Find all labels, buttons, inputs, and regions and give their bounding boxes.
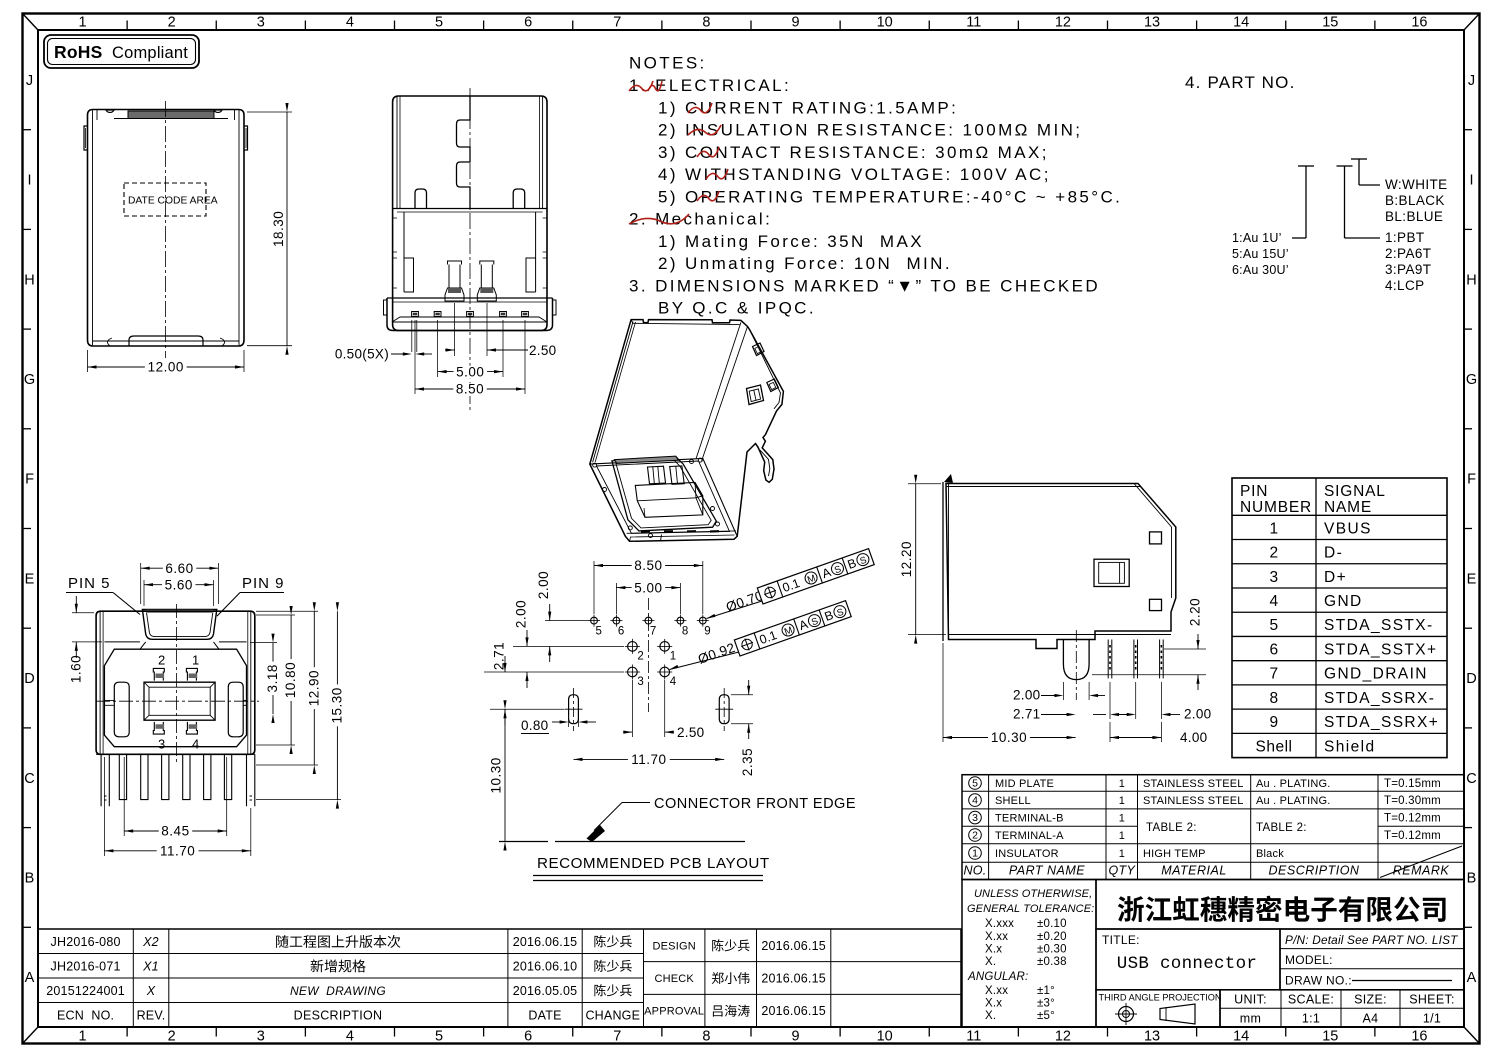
view: connector top view (12.00 x 18.30) (84, 101, 248, 358)
svg-text:G: G (24, 372, 35, 388)
svg-text:5:Au 15U’: 5:Au 15U’ (1232, 247, 1289, 261)
svg-text:X.x: X.x (985, 998, 1002, 1010)
ruler column ticks and numbers (126, 21, 128, 30)
RoHS Compliant badge (44, 35, 199, 68)
svg-text:2.50: 2.50 (529, 343, 556, 358)
svg-text:4: 4 (972, 795, 978, 807)
svg-text:TITLE:: TITLE: (1102, 933, 1140, 947)
svg-text:3:PA9T: 3:PA9T (1385, 262, 1431, 277)
dim 1.60 (72, 612, 94, 614)
svg-text:2.00: 2.00 (1013, 688, 1040, 703)
svg-text:1) Mating Force: 35N MAX: 1) Mating Force: 35N MAX (658, 232, 924, 251)
svg-text:SIZE:: SIZE: (1354, 993, 1387, 1007)
view: isometric 3d connector (590, 320, 784, 542)
svg-text:1/1: 1/1 (1423, 1012, 1441, 1026)
svg-text:2.20: 2.20 (1188, 598, 1203, 626)
view: recommended pcb layout (484, 558, 755, 850)
svg-text:HIGH TEMP: HIGH TEMP (1143, 848, 1206, 860)
part-no tree line 2 (material) (1344, 166, 1346, 238)
svg-text:D: D (24, 671, 34, 687)
svg-text:mm: mm (1240, 1012, 1261, 1026)
svg-text:T=0.30mm: T=0.30mm (1384, 795, 1441, 807)
body right vertical edge (696, 322, 741, 459)
svg-text:14: 14 (1233, 1029, 1249, 1045)
svg-text:NAME: NAME (1324, 499, 1372, 516)
svg-text:2: 2 (168, 1029, 176, 1045)
svg-text:USB connector: USB connector (1117, 954, 1257, 974)
svg-text:JH2016-080: JH2016-080 (51, 935, 121, 949)
svg-text:3: 3 (637, 676, 643, 688)
rev descriptions (276, 935, 400, 948)
svg-text:JH2016-071: JH2016-071 (51, 959, 121, 973)
svg-text:X.: X. (985, 956, 996, 968)
bottom face edge (627, 531, 736, 533)
svg-text:2:PA6T: 2:PA6T (1385, 246, 1431, 261)
dim 8.45 (123, 757, 125, 836)
svg-text:PIN: PIN (1240, 483, 1268, 500)
socket top slot shading (614, 456, 678, 463)
svg-text:1: 1 (1119, 778, 1125, 790)
dim 2.71 (504, 656, 506, 672)
outline (393, 96, 547, 331)
svg-text:1:Au 1U’: 1:Au 1U’ (1232, 231, 1282, 245)
svg-text:5.00: 5.00 (634, 580, 662, 595)
dim 6.60 (140, 563, 142, 604)
svg-text:STDA_SSRX-: STDA_SSRX- (1324, 690, 1435, 707)
svg-text:PIN 5: PIN 5 (68, 575, 111, 592)
svg-text:3: 3 (257, 15, 265, 31)
svg-text:UNIT:: UNIT: (1234, 993, 1267, 1007)
dim 2.00 a (549, 604, 551, 621)
svg-text:C: C (24, 771, 34, 787)
svg-text:STDA_SSTX+: STDA_SSTX+ (1324, 641, 1438, 658)
svg-text:J: J (1468, 73, 1475, 89)
centerline (469, 88, 471, 412)
svg-text:REV.: REV. (137, 1008, 166, 1022)
svg-text:±5°: ±5° (1037, 1010, 1055, 1022)
flange hole 1 (753, 343, 765, 356)
svg-text:NEW DRAWING: NEW DRAWING (290, 984, 386, 998)
svg-text:18.30: 18.30 (271, 211, 286, 247)
svg-text:2.00: 2.00 (1184, 707, 1211, 722)
base side lugs (384, 300, 388, 315)
svg-text:P/N: Detail See PART NO. LIST: P/N: Detail See PART NO. LIST (1285, 933, 1458, 947)
svg-text:H: H (1466, 272, 1476, 288)
svg-text:2.00: 2.00 (536, 571, 551, 599)
top dark band (128, 111, 214, 119)
svg-text:2: 2 (1269, 545, 1278, 562)
socket face outline (590, 458, 737, 536)
svg-text:B: B (25, 870, 35, 886)
svg-text:ECN NO.: ECN NO. (57, 1008, 114, 1022)
hole row 5-9 (591, 617, 598, 624)
svg-text:4:LCP: 4:LCP (1385, 278, 1425, 293)
svg-text:2016.06.15: 2016.06.15 (513, 935, 578, 949)
svg-text:2.71: 2.71 (492, 642, 507, 670)
svg-text:DESIGN: DESIGN (653, 940, 696, 952)
svg-text:8: 8 (1269, 690, 1278, 707)
svg-text:2) INSULATION RESISTANCE: 100M: 2) INSULATION RESISTANCE: 100MΩ MIN; (658, 121, 1082, 140)
svg-text:SHEET:: SHEET: (1409, 993, 1455, 1007)
svg-text:BL:BLUE: BL:BLUE (1385, 209, 1443, 224)
center cross lines (96, 700, 259, 702)
svg-text:X: X (146, 984, 156, 998)
svg-text:X.: X. (985, 1010, 996, 1022)
svg-text:RECOMMENDED PCB LAYOUT: RECOMMENDED PCB LAYOUT (537, 855, 770, 872)
svg-text:T=0.12mm: T=0.12mm (1384, 813, 1441, 825)
inner pins (648, 466, 666, 484)
svg-text:DATE CODE AREA: DATE CODE AREA (128, 196, 218, 207)
dim 10.30 (942, 643, 944, 742)
connector front edge line (499, 841, 548, 843)
svg-text:2: 2 (158, 653, 165, 668)
svg-text:TERMINAL-A: TERMINAL-A (995, 830, 1064, 842)
svg-text:4: 4 (1269, 593, 1278, 610)
corner bumps (593, 463, 597, 467)
svg-text:PART NAME: PART NAME (1009, 864, 1085, 878)
shell horizontal edge (393, 208, 547, 210)
svg-text:A: A (25, 970, 35, 986)
svg-text:1: 1 (192, 653, 199, 668)
svg-text:12.20: 12.20 (899, 541, 914, 577)
svg-text:7: 7 (1269, 666, 1278, 683)
svg-text:1: 1 (1119, 848, 1125, 860)
date code area dashed box (124, 183, 206, 216)
svg-text:X.xx: X.xx (985, 931, 1008, 943)
svg-text:14: 14 (1233, 15, 1249, 31)
svg-text:F: F (1467, 472, 1476, 488)
svg-text:3: 3 (158, 737, 165, 752)
svg-text:10: 10 (877, 1029, 893, 1045)
dim 4.00 (1109, 722, 1111, 742)
projection symbol circle (1119, 1007, 1134, 1022)
part-no tree line 1 (plating) (1305, 166, 1307, 238)
company name box (1096, 880, 1464, 930)
dim 11.70 (574, 758, 725, 760)
dim 8.50 pcb (593, 561, 595, 614)
svg-text:5.00: 5.00 (456, 364, 484, 379)
svg-text:G: G (1466, 372, 1477, 388)
svg-text:CHECK: CHECK (654, 973, 694, 985)
bottom slot detail (129, 336, 203, 346)
svg-text:7: 7 (613, 15, 621, 31)
svg-text:E: E (1467, 571, 1477, 587)
dim 10.30 (504, 709, 506, 841)
svg-text:Au . PLATING.: Au . PLATING. (1256, 778, 1331, 790)
fcf leader for hole 0.70 (707, 614, 716, 619)
svg-text:1.60: 1.60 (68, 655, 83, 683)
svg-text:TABLE 2:: TABLE 2: (1146, 822, 1197, 834)
svg-text:SCALE:: SCALE: (1288, 993, 1334, 1007)
svg-text:GND: GND (1324, 593, 1363, 610)
socket face inner frame (597, 461, 730, 533)
dim 11.70 (103, 757, 105, 856)
cavity octagon (104, 649, 246, 747)
side latch springs (114, 682, 129, 737)
svg-text:12.90: 12.90 (306, 670, 321, 706)
svg-text:Shield: Shield (1324, 738, 1376, 755)
svg-text:12: 12 (1055, 1029, 1071, 1045)
svg-text:2016.06.15: 2016.06.15 (761, 972, 826, 986)
feature control frame 0.92 (734, 601, 851, 656)
svg-text:1) CURRENT RATING:1.5AMP:: 1) CURRENT RATING:1.5AMP: (658, 98, 958, 117)
view: side view (943, 474, 1176, 700)
dim 2.35 (731, 694, 753, 696)
svg-text:4. PART NO.: 4. PART NO. (1185, 73, 1296, 92)
body outline (946, 484, 1176, 649)
holes 3 4 (628, 667, 638, 677)
svg-text:GENERAL TOLERANCE:: GENERAL TOLERANCE: (967, 903, 1094, 915)
svg-text:MID PLATE: MID PLATE (995, 778, 1054, 790)
svg-text:1:1: 1:1 (1302, 1012, 1320, 1026)
svg-text:SHELL: SHELL (995, 795, 1031, 807)
svg-text:8: 8 (702, 15, 710, 31)
extension lines (545, 620, 588, 622)
svg-text:Au . PLATING.: Au . PLATING. (1256, 795, 1331, 807)
svg-text:D-: D- (1324, 545, 1343, 562)
svg-text:RoHS: RoHS (54, 42, 102, 62)
svg-text:1:PBT: 1:PBT (1385, 230, 1425, 245)
svg-text:W:WHITE: W:WHITE (1385, 177, 1448, 192)
dimension 18.30 (247, 111, 292, 113)
svg-text:I: I (27, 173, 31, 189)
svg-text:1: 1 (972, 848, 978, 860)
inner wall lines (92, 110, 94, 345)
svg-text:TERMINAL-B: TERMINAL-B (995, 813, 1064, 825)
svg-text:2) Unmating Force: 10N MIN.: 2) Unmating Force: 10N MIN. (658, 254, 952, 273)
svg-text:1: 1 (1119, 813, 1125, 825)
oval slots (569, 695, 579, 724)
svg-text:±0.20: ±0.20 (1037, 931, 1067, 943)
dim 15.30 (256, 799, 341, 801)
company name (Chinese glyph paths) (1118, 896, 1446, 922)
square hole 2 (1150, 599, 1162, 610)
square hole 1 (1150, 532, 1162, 544)
body silhouette (590, 320, 784, 542)
svg-text:X1: X1 (142, 959, 159, 973)
left hook (415, 189, 427, 209)
svg-text:7: 7 (613, 1029, 621, 1045)
svg-text:16: 16 (1411, 1029, 1427, 1045)
pn model drawno rows (1280, 929, 1464, 990)
svg-text:10.30: 10.30 (991, 730, 1027, 745)
corner diagonals (23, 14, 39, 31)
tolerance box (962, 880, 1096, 1028)
svg-text:NO.: NO. (963, 864, 986, 878)
svg-text:E: E (25, 571, 35, 587)
svg-text:1: 1 (1269, 520, 1278, 537)
svg-text:5: 5 (435, 1029, 443, 1045)
svg-text:B:BLACK: B:BLACK (1385, 193, 1445, 208)
svg-text:4: 4 (346, 1029, 354, 1045)
svg-text:2016.06.15: 2016.06.15 (761, 1004, 826, 1018)
svg-text:5: 5 (596, 626, 602, 638)
inner tongue block (635, 482, 703, 517)
ruler row ticks and letters (23, 129, 32, 131)
svg-text:±1°: ±1° (1037, 985, 1055, 997)
svg-text:STAINLESS STEEL: STAINLESS STEEL (1143, 778, 1244, 790)
svg-text:F: F (25, 472, 34, 488)
svg-text:5: 5 (435, 15, 443, 31)
svg-text:1: 1 (670, 650, 676, 662)
dim 2.20 (1164, 648, 1206, 650)
svg-text:TABLE 2:: TABLE 2: (1256, 822, 1307, 834)
lower cavity walls (403, 212, 405, 292)
svg-text:CONNECTOR FRONT EDGE: CONNECTOR FRONT EDGE (654, 796, 856, 812)
svg-text:9: 9 (792, 15, 800, 31)
svg-text:GND_DRAIN: GND_DRAIN (1324, 666, 1428, 683)
left wall slots (393, 218, 397, 288)
svg-text:MODEL:: MODEL: (1285, 953, 1333, 967)
center tab profile upper (457, 96, 471, 208)
svg-text:APPROVAL: APPROVAL (644, 1006, 704, 1018)
main shell outline (96, 611, 255, 754)
top tongue trapezoid (142, 610, 216, 640)
svg-text:2: 2 (168, 15, 176, 31)
svg-text:D+: D+ (1324, 569, 1347, 586)
center tongue block (144, 682, 215, 720)
svg-text:8.45: 8.45 (161, 824, 189, 839)
dim 12.90 (256, 610, 318, 612)
svg-text:8: 8 (682, 626, 688, 638)
dim 2.50 (631, 680, 633, 737)
svg-text:INSULATOR: INSULATOR (995, 848, 1059, 860)
view2 dimension extension lines (414, 320, 416, 394)
svg-text:6: 6 (524, 1029, 532, 1045)
vertical centerline (165, 101, 167, 358)
svg-text:20151224001: 20151224001 (46, 984, 125, 998)
svg-text:CHANGE: CHANGE (585, 1008, 640, 1022)
svg-text:A4: A4 (1363, 1012, 1379, 1026)
svg-text:9: 9 (704, 626, 710, 638)
bottom pads (641, 530, 650, 532)
dimension 2.50 (445, 349, 455, 351)
svg-text:15.30: 15.30 (329, 687, 344, 723)
svg-text:D: D (1466, 671, 1476, 687)
svg-text:4: 4 (192, 737, 199, 752)
shell outline (88, 110, 245, 347)
svg-text:10.30: 10.30 (489, 757, 504, 793)
contact pin left (445, 261, 464, 301)
svg-text:7: 7 (650, 626, 656, 638)
svg-text:3. DIMENSIONS MARKED “▼” TO BE: 3. DIMENSIONS MARKED “▼” TO BE CHECKED (629, 276, 1100, 295)
svg-text:Shell: Shell (1256, 738, 1293, 755)
legs (101, 754, 255, 806)
dim 12.20 (908, 483, 941, 485)
svg-text:MATERIAL: MATERIAL (1161, 864, 1227, 878)
svg-text:±0.10: ±0.10 (1037, 918, 1067, 930)
svg-text:0.50(5X): 0.50(5X) (335, 347, 389, 362)
svg-text:BY Q.C & IPQC.: BY Q.C & IPQC. (658, 299, 816, 318)
svg-text:C: C (1466, 771, 1476, 787)
svg-text:12: 12 (1055, 15, 1071, 31)
socket opening octagon (612, 457, 716, 531)
svg-text:QTY: QTY (1108, 864, 1136, 878)
straight pins (1107, 640, 1109, 679)
svg-text:NOTES:: NOTES: (629, 54, 707, 73)
title box (1096, 929, 1280, 990)
svg-text:11.70: 11.70 (631, 752, 666, 767)
svg-text:SIGNAL: SIGNAL (1324, 483, 1386, 500)
left side tab (84, 126, 88, 150)
svg-text:VBUS: VBUS (1324, 520, 1372, 537)
third angle projection box (1096, 990, 1220, 1027)
svg-text:STDA_SSRX+: STDA_SSRX+ (1324, 714, 1439, 731)
svg-text:8: 8 (702, 1029, 710, 1045)
svg-text:13: 13 (1144, 1029, 1160, 1045)
inner wall verticals (396, 97, 398, 209)
shell base and legs (96, 753, 255, 755)
svg-text:H: H (24, 272, 34, 288)
right slant inner (1134, 484, 1172, 528)
svg-text:2016.05.05: 2016.05.05 (513, 984, 578, 998)
solder pads (412, 312, 419, 317)
svg-text:±0.38: ±0.38 (1037, 956, 1067, 968)
svg-text:Black: Black (1256, 848, 1284, 860)
svg-text:1: 1 (79, 15, 87, 31)
svg-text:2016.06.10: 2016.06.10 (513, 959, 578, 973)
svg-text:5.60: 5.60 (165, 577, 193, 592)
projection symbol cone (1160, 1004, 1195, 1024)
svg-text:11: 11 (966, 1029, 981, 1045)
svg-text:STDA_SSTX-: STDA_SSTX- (1324, 617, 1434, 634)
svg-text:3: 3 (1269, 569, 1278, 586)
parts list table (962, 775, 1464, 880)
flange inner edge (751, 333, 781, 409)
dimension 8.50 (415, 388, 525, 390)
revision history table (38, 929, 961, 1027)
middle latch rect (1094, 559, 1129, 586)
feature control frame 0.70 (757, 549, 874, 604)
svg-text:DESCRIPTION: DESCRIPTION (294, 1008, 383, 1022)
dim 3.18 (250, 642, 277, 644)
right side tab (244, 126, 248, 150)
fcf leader for hole 0.92 (670, 665, 679, 670)
svg-text:16: 16 (1411, 15, 1427, 31)
dimension 12.00 (87, 350, 89, 372)
right hook (513, 189, 525, 209)
center dash line (647, 598, 649, 712)
svg-text:4: 4 (346, 15, 354, 31)
flange hole 2 (767, 379, 779, 392)
svg-text:T=0.12mm: T=0.12mm (1384, 830, 1441, 842)
svg-text:THIRD ANGLE PROJECTION: THIRD ANGLE PROJECTION (1099, 993, 1222, 1003)
svg-text:UNLESS OTHERWISE,: UNLESS OTHERWISE, (974, 888, 1092, 900)
check mark triangle (944, 474, 953, 483)
dim 5.60 (143, 580, 145, 606)
right face square hole (747, 385, 764, 405)
svg-text:11: 11 (966, 15, 981, 31)
svg-text:1: 1 (1119, 830, 1125, 842)
svg-text:4: 4 (670, 676, 677, 688)
dim 2.00 b (526, 630, 528, 646)
svg-text:6: 6 (1269, 641, 1278, 658)
svg-text:PIN 9: PIN 9 (242, 575, 285, 592)
svg-text:4.00: 4.00 (1180, 730, 1207, 745)
svg-text:3.18: 3.18 (265, 664, 280, 692)
svg-text:12.00: 12.00 (148, 360, 184, 375)
svg-text:5: 5 (1269, 617, 1278, 634)
svg-text:8.50: 8.50 (456, 382, 484, 397)
svg-text:ANGULAR:: ANGULAR: (967, 971, 1028, 983)
base block (387, 298, 553, 331)
svg-text:±0.30: ±0.30 (1037, 944, 1067, 956)
svg-text:2016.06.15: 2016.06.15 (761, 939, 826, 953)
svg-text:Compliant: Compliant (112, 44, 188, 62)
svg-text:1: 1 (79, 1029, 87, 1045)
svg-text:8.50: 8.50 (634, 558, 662, 573)
svg-text:2.00: 2.00 (514, 600, 529, 628)
